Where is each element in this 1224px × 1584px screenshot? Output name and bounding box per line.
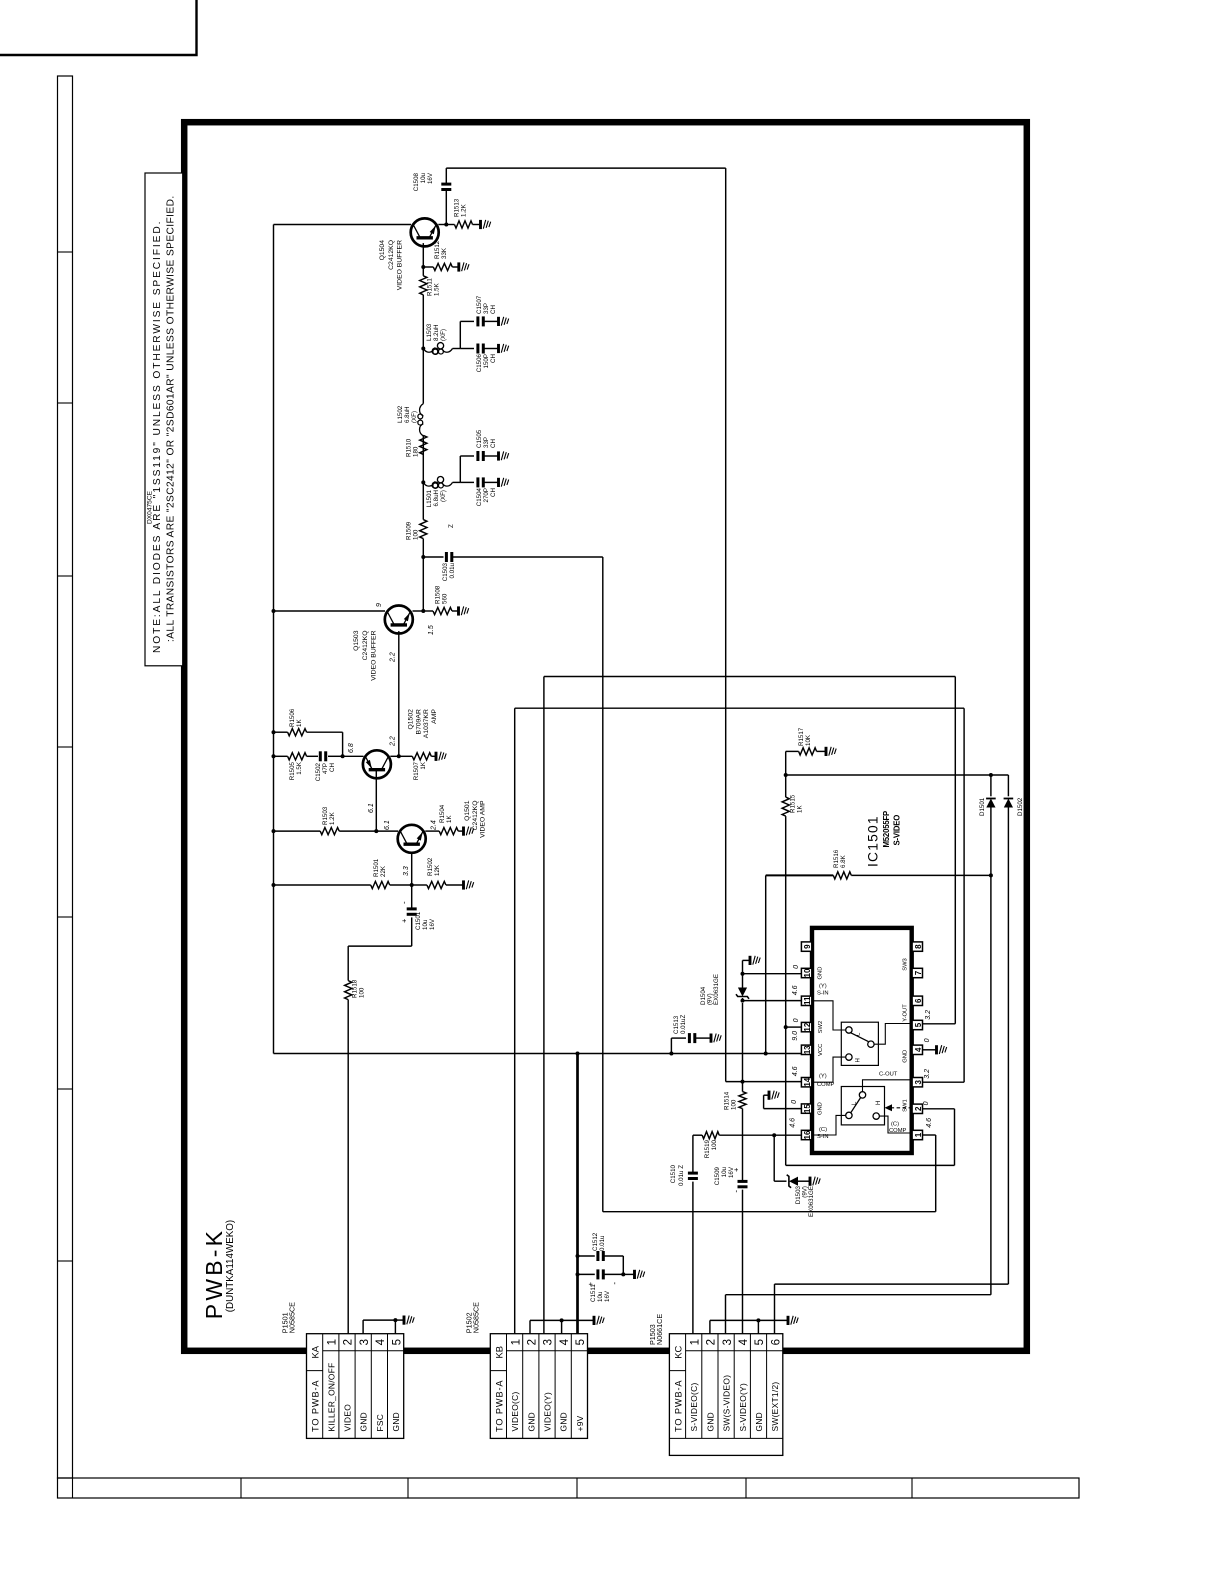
svg-text:10K: 10K — [805, 734, 812, 746]
svg-text:1K: 1K — [446, 815, 453, 823]
svg-text:6: 6 — [914, 998, 923, 1003]
svg-text:33K: 33K — [441, 247, 448, 259]
svg-text:Y-OUT: Y-OUT — [902, 1004, 908, 1022]
svg-text:TO PWB-A: TO PWB-A — [673, 1380, 683, 1432]
resistor R1508 — [423, 610, 433, 612]
capacitor C1505 — [460, 455, 474, 457]
svg-text:2: 2 — [914, 1106, 923, 1111]
svg-text:VIDEO BUFFER: VIDEO BUFFER — [397, 240, 404, 290]
IC pin 10 — [801, 968, 811, 977]
svg-text:C1507: C1507 — [476, 295, 483, 314]
resistor R1501 — [274, 884, 371, 886]
svg-text:8.2uH: 8.2uH — [433, 324, 440, 341]
svg-text:100: 100 — [731, 1099, 738, 1110]
svg-text:33P: 33P — [483, 303, 490, 314]
IC pin2 SW1 route — [922, 1108, 954, 1110]
resistor R1514 — [739, 1092, 746, 1109]
trap L1503 C1506 C1507 — [421, 347, 425, 351]
IC pin 3 — [912, 1078, 922, 1087]
wire pin12 stub — [786, 1026, 802, 1028]
capacitor C1512 — [576, 1254, 580, 1258]
svg-text:1.2K: 1.2K — [461, 203, 468, 217]
svg-text:C1508: C1508 — [413, 172, 420, 191]
svg-text:1.2K: 1.2K — [329, 811, 336, 825]
svg-text:R1517: R1517 — [798, 727, 805, 746]
diode D1502 — [1007, 775, 1009, 796]
svg-text:C1505: C1505 — [476, 429, 483, 448]
resistor R1503 — [274, 830, 321, 832]
svg-text:R1508: R1508 — [435, 585, 442, 604]
svg-text:3.2: 3.2 — [925, 1010, 932, 1020]
svg-text:0.01u Z: 0.01u Z — [678, 1165, 685, 1186]
svg-text:PWB-K: PWB-K — [201, 1228, 227, 1319]
svg-text:2.2: 2.2 — [390, 652, 397, 663]
svg-text:0: 0 — [924, 1038, 931, 1042]
svg-text:+9V: +9V — [575, 1415, 585, 1431]
svg-text:0: 0 — [793, 965, 800, 969]
svg-text:C1513: C1513 — [673, 1015, 680, 1034]
svg-text:R1513: R1513 — [454, 198, 461, 217]
svg-text:4.6: 4.6 — [792, 1066, 799, 1076]
svg-text:1: 1 — [689, 1339, 701, 1345]
wire Q1502 collector node — [390, 755, 399, 757]
svg-text:22K: 22K — [380, 865, 387, 877]
svg-text:C2412KQ: C2412KQ — [472, 801, 479, 831]
svg-text:1: 1 — [914, 1132, 923, 1137]
svg-text:AMP: AMP — [431, 709, 438, 724]
capacitor C1508 output — [445, 190, 447, 225]
svg-text:SW1: SW1 — [902, 1099, 908, 1112]
wire Q1503 collector to rail — [274, 610, 386, 612]
svg-text:N0585CE: N0585CE — [472, 1302, 481, 1333]
Y-OUT bus pin5 to P1502 pin3 — [543, 677, 545, 1334]
svg-text:TO PWB-A: TO PWB-A — [494, 1380, 504, 1432]
capacitor C1510 — [688, 1177, 698, 1180]
resistor R1515 — [782, 797, 789, 816]
capacitor C1511 electrolytic — [576, 1272, 580, 1276]
capacitor C1503 tap — [421, 555, 425, 559]
svg-text:CH: CH — [490, 439, 497, 448]
svg-text:16: 16 — [803, 1130, 812, 1139]
transistor Q1503 — [385, 606, 413, 634]
svg-text:C1501: C1501 — [415, 911, 422, 930]
capacitor C1509 electrolytic — [738, 1185, 748, 1188]
svg-text:3.2: 3.2 — [924, 1069, 931, 1079]
svg-text:C1506: C1506 — [476, 353, 483, 372]
svg-text:(C): (C) — [891, 1122, 899, 1128]
svg-text:Q1502: Q1502 — [408, 709, 415, 730]
resistor R1516 from VCC — [765, 875, 767, 1053]
IC pin 4 — [912, 1045, 922, 1054]
svg-text:S-IN: S-IN — [817, 991, 829, 997]
svg-text:33P: 33P — [483, 437, 490, 448]
svg-text:150P: 150P — [483, 354, 490, 368]
svg-text:15: 15 — [803, 1104, 812, 1113]
svg-text:10u: 10u — [422, 919, 429, 930]
P1502 ground pins 2,4 — [529, 1320, 531, 1333]
svg-text:C1510: C1510 — [670, 1164, 677, 1183]
svg-text:C2412KQ: C2412KQ — [388, 240, 395, 270]
wire Q1501 collector — [376, 830, 398, 832]
wire Q1504 emitter node — [438, 224, 446, 226]
svg-text:R1506: R1506 — [289, 708, 296, 727]
svg-text:4: 4 — [375, 1338, 387, 1345]
svg-text:GND: GND — [391, 1412, 401, 1432]
svg-text:5: 5 — [914, 1022, 923, 1027]
svg-text:C1509: C1509 — [714, 1166, 721, 1185]
svg-text:10u: 10u — [597, 1291, 604, 1302]
svg-text:16V: 16V — [427, 172, 434, 184]
video ladder chain — [422, 539, 424, 611]
svg-text:100: 100 — [413, 529, 420, 540]
svg-text:(Y): (Y) — [819, 984, 827, 990]
svg-text:CH: CH — [329, 763, 336, 772]
IC pin4 ground — [922, 1049, 936, 1051]
IC pin 13 — [801, 1045, 811, 1054]
resistor R1507 — [399, 755, 413, 757]
svg-text:KC: KC — [672, 1345, 683, 1358]
svg-text:R1510: R1510 — [406, 438, 413, 457]
SW1 dashed control arrow from pin 2 — [889, 1107, 912, 1109]
wire pin10 GND stub — [743, 973, 802, 975]
svg-text:H: H — [876, 1101, 882, 1105]
svg-text:S-VIDEO(Y): S-VIDEO(Y) — [738, 1383, 748, 1432]
svg-text:R1509: R1509 — [406, 521, 413, 540]
svg-text:6.8uH: 6.8uH — [404, 406, 411, 423]
svg-text:9: 9 — [803, 944, 812, 949]
P1503 ground pins 2,5 — [709, 1320, 711, 1333]
svg-text:4: 4 — [738, 1338, 750, 1345]
IC pin 12 — [801, 1022, 811, 1031]
svg-text:(Y): (Y) — [819, 1074, 827, 1080]
svg-text:1: 1 — [510, 1339, 522, 1345]
ground — [479, 220, 482, 229]
transistor Q1504 — [411, 218, 439, 246]
svg-text:L1501: L1501 — [426, 489, 433, 507]
P1501 ground pins 3,5 — [362, 1320, 364, 1334]
svg-text:6.8uH: 6.8uH — [433, 490, 440, 507]
svg-text:R1511: R1511 — [427, 278, 434, 296]
svg-text:100: 100 — [359, 987, 366, 998]
svg-text:GND: GND — [818, 1102, 824, 1115]
ground at D1504 — [742, 960, 744, 973]
main +9V rail — [273, 225, 275, 1054]
svg-text:R1515: R1515 — [790, 794, 797, 813]
wire Q1504 collector — [274, 224, 412, 226]
svg-text:SW2: SW2 — [818, 1021, 824, 1034]
svg-text:0: 0 — [793, 1018, 800, 1022]
svg-text:VIDEO BUFFER: VIDEO BUFFER — [371, 630, 378, 680]
left margin strip — [58, 76, 73, 1478]
svg-text:1: 1 — [327, 1339, 339, 1345]
long output line to IC pin14 area — [446, 167, 725, 169]
svg-text:8: 8 — [914, 944, 923, 949]
svg-text:1.5: 1.5 — [428, 625, 435, 635]
resistor R1509 — [420, 520, 427, 539]
svg-text:0.01u: 0.01u — [449, 562, 456, 578]
svg-text:CH: CH — [490, 305, 497, 314]
svg-text:(DUNTKA114WEKO): (DUNTKA114WEKO) — [225, 1220, 236, 1312]
transistor Q1502 PNP — [343, 755, 364, 757]
svg-text:-: - — [610, 1282, 619, 1285]
svg-text:GND: GND — [559, 1412, 569, 1432]
C-OUT bus pin3 to P1502 pin1 — [514, 708, 516, 1333]
svg-text:+: + — [732, 1167, 741, 1172]
svg-text:Q1501: Q1501 — [464, 800, 471, 821]
IC pin 8 — [912, 942, 922, 951]
svg-text:N0661CE: N0661CE — [655, 1314, 664, 1345]
svg-text:R1516: R1516 — [833, 849, 840, 868]
resistor R1517 to ground — [786, 750, 799, 752]
svg-text:R1504: R1504 — [439, 804, 446, 823]
svg-text:VCC: VCC — [818, 1044, 824, 1056]
wire chain to R1511 — [422, 295, 424, 349]
svg-text:KA: KA — [310, 1345, 321, 1358]
svg-text:13: 13 — [803, 1045, 812, 1054]
svg-text:2: 2 — [706, 1339, 718, 1345]
ground — [497, 478, 500, 487]
svg-text:6.1: 6.1 — [368, 803, 375, 813]
IC switch SW1 box — [841, 1087, 884, 1125]
resistor R1512 — [423, 266, 433, 268]
svg-text:10u: 10u — [721, 1166, 728, 1177]
IC pin 2 — [912, 1104, 922, 1113]
svg-text:12: 12 — [803, 1022, 812, 1031]
svg-text:C2412KQ: C2412KQ — [362, 631, 369, 661]
svg-text:-: - — [400, 901, 409, 904]
svg-text:SW(S-VIDEO): SW(S-VIDEO) — [722, 1375, 732, 1432]
resistor R1510 — [420, 435, 427, 454]
svg-text:(XF): (XF) — [440, 329, 447, 341]
svg-text:12K: 12K — [434, 864, 441, 876]
svg-text:270P: 270P — [483, 488, 490, 502]
inductor L1502 — [420, 404, 424, 436]
svg-text:+: + — [400, 918, 409, 923]
IC switch SW2 box — [841, 1022, 878, 1065]
trap L1501 C1504 C1505 — [421, 480, 425, 484]
capacitor C1506 — [460, 348, 474, 350]
connector P1503 table — [669, 1334, 782, 1456]
svg-text:VIDEO: VIDEO — [343, 1404, 353, 1432]
svg-text:R1519: R1519 — [704, 1139, 711, 1158]
Y input line to P1503 pin4 S-VIDEO(Y) — [742, 1190, 744, 1334]
ground — [457, 262, 460, 271]
svg-text:100: 100 — [711, 1139, 718, 1150]
svg-text:M52055FP: M52055FP — [882, 811, 891, 848]
svg-text:EX0631GE: EX0631GE — [713, 974, 720, 1005]
svg-text:L1502: L1502 — [397, 405, 404, 423]
bottom margin strip — [58, 1478, 1080, 1498]
svg-text:0.01uZ: 0.01uZ — [680, 1015, 687, 1034]
wire Q1502 collector to Q1503 base — [398, 631, 400, 756]
wire pin11 stub — [743, 1000, 802, 1002]
IC pin 16 — [801, 1130, 811, 1139]
svg-text::ALL TRANSISTORS ARE "2SC2412": :ALL TRANSISTORS ARE "2SC2412" OR "2SD60… — [166, 195, 177, 642]
svg-text:N0585CE: N0585CE — [288, 1302, 297, 1333]
svg-text:COMP: COMP — [817, 1082, 835, 1088]
C1503 route to IC pin1 — [602, 557, 604, 1212]
svg-text:6.8K: 6.8K — [840, 854, 847, 868]
svg-text:4.6: 4.6 — [926, 1118, 933, 1128]
svg-text:4.6: 4.6 — [790, 1118, 797, 1128]
svg-text:10u: 10u — [420, 172, 427, 183]
svg-text:11: 11 — [803, 996, 812, 1005]
svg-text:3: 3 — [359, 1339, 371, 1345]
svg-text:1.5K: 1.5K — [434, 282, 441, 296]
svg-text:SW3: SW3 — [902, 958, 908, 971]
main bold frame — [184, 122, 1027, 1351]
svg-text:47P: 47P — [322, 763, 329, 774]
resistor R1502 — [412, 884, 427, 886]
svg-text:GND: GND — [818, 967, 824, 980]
node base Q1501 wire — [411, 853, 413, 886]
svg-text:DX0475CE: DX0475CE — [147, 490, 154, 524]
ground — [462, 880, 465, 889]
svg-text:5: 5 — [391, 1339, 403, 1345]
svg-text:C1512: C1512 — [592, 1232, 599, 1251]
resistor R1519 — [693, 1134, 702, 1136]
svg-text:B709AR: B709AR — [415, 709, 422, 734]
IC1501 box — [812, 928, 912, 1153]
IC pin 6 — [912, 996, 922, 1005]
capacitor C1504 — [460, 481, 474, 483]
svg-text:R1501: R1501 — [373, 858, 380, 877]
IC pin 1 — [912, 1130, 922, 1139]
D1501 route to P1503 pin3 — [990, 875, 992, 1294]
svg-text:C1504: C1504 — [476, 487, 483, 506]
svg-text:R1503: R1503 — [322, 806, 329, 825]
connector P1502 table — [490, 1334, 587, 1439]
resistor R1504 — [425, 830, 439, 832]
svg-text:9: 9 — [376, 603, 383, 607]
VCC feed line (left vertical to IC pin 13) — [274, 1053, 802, 1055]
svg-text:GND: GND — [526, 1412, 536, 1432]
svg-text:C1511: C1511 — [590, 1284, 597, 1302]
ground — [462, 827, 465, 836]
svg-text:0.01u: 0.01u — [599, 1235, 606, 1251]
svg-text:6: 6 — [770, 1339, 782, 1345]
svg-text:S-VIDEO: S-VIDEO — [893, 815, 902, 846]
svg-text:R1507: R1507 — [413, 761, 420, 780]
resistor R1511 — [420, 276, 427, 295]
svg-text:H: H — [856, 1058, 862, 1062]
svg-text:4: 4 — [559, 1338, 571, 1345]
svg-text:(XF): (XF) — [440, 490, 447, 502]
svg-text:EX0631GE: EX0631GE — [808, 1186, 815, 1217]
svg-text:KB: KB — [493, 1346, 504, 1359]
svg-text:A1037KR: A1037KR — [423, 709, 430, 738]
svg-text:1.5K: 1.5K — [296, 761, 303, 775]
svg-text:VIDEO AMP: VIDEO AMP — [480, 800, 487, 838]
diode D1503 zener to ground — [773, 1135, 775, 1181]
resistor R1513 — [446, 224, 454, 226]
svg-text:-: - — [732, 1190, 741, 1193]
svg-text:Q1504: Q1504 — [379, 240, 386, 261]
svg-text:16V: 16V — [429, 918, 436, 930]
svg-text:R1505: R1505 — [289, 761, 296, 780]
svg-text:R1518: R1518 — [352, 979, 359, 998]
svg-text:GND: GND — [754, 1412, 764, 1432]
svg-text:3: 3 — [543, 1339, 555, 1345]
IC pin 14 — [801, 1078, 811, 1087]
svg-text:(C): (C) — [819, 1127, 827, 1133]
svg-text:SW(EXT1/2): SW(EXT1/2) — [770, 1382, 780, 1432]
svg-text:GND: GND — [359, 1412, 369, 1432]
thick +9V to P1502 pin5 — [576, 1054, 579, 1334]
svg-text:VIDEO(C): VIDEO(C) — [510, 1391, 520, 1431]
svg-text:Z: Z — [448, 524, 455, 528]
resistor R1518 — [345, 981, 352, 1000]
svg-text:1K: 1K — [296, 719, 303, 727]
svg-text:5: 5 — [575, 1339, 587, 1345]
wire Q1502 base to Q1501 collector — [375, 770, 377, 831]
svg-text:KILLER_ON/OFF: KILLER_ON/OFF — [326, 1362, 336, 1431]
svg-text:180: 180 — [413, 446, 420, 457]
svg-text:1K: 1K — [420, 761, 427, 769]
svg-text:CH: CH — [490, 488, 497, 497]
svg-text:5: 5 — [754, 1339, 766, 1345]
svg-text:IC1501: IC1501 — [866, 815, 881, 867]
svg-text:R1502: R1502 — [427, 857, 434, 876]
IC pin15 ground — [764, 1108, 802, 1110]
svg-text:4: 4 — [914, 1047, 923, 1052]
svg-text:NOTE:ALL DIODES ARE "1SS119" U: NOTE:ALL DIODES ARE "1SS119" UNLESS OTHE… — [152, 220, 163, 653]
IC pin 9 — [801, 942, 811, 951]
svg-text:2.2: 2.2 — [390, 736, 397, 747]
svg-text:2.4: 2.4 — [431, 820, 438, 831]
svg-text:R1514: R1514 — [724, 1091, 731, 1110]
wire Q1503 emitter node — [413, 610, 424, 612]
svg-text:D1502: D1502 — [1017, 797, 1024, 816]
note box — [145, 173, 183, 666]
svg-text:GND: GND — [705, 1412, 715, 1432]
resistor R1505 — [274, 755, 288, 757]
svg-text:9.0: 9.0 — [792, 1031, 799, 1041]
capacitor C1502 — [307, 755, 318, 757]
ground — [435, 752, 438, 761]
svg-text:14: 14 — [803, 1077, 812, 1086]
svg-text:7: 7 — [914, 970, 923, 975]
svg-text:16V: 16V — [604, 1290, 611, 1302]
svg-text:1K: 1K — [797, 805, 804, 813]
svg-text:10: 10 — [803, 968, 812, 977]
svg-text:3.3: 3.3 — [403, 866, 410, 876]
svg-text:6.1: 6.1 — [384, 820, 391, 830]
svg-text:3: 3 — [722, 1339, 734, 1345]
resistor R1506 — [274, 731, 288, 733]
svg-text:CH: CH — [490, 354, 497, 363]
connector P1501 table — [307, 1334, 404, 1439]
svg-text:GND: GND — [902, 1050, 908, 1063]
ground — [497, 451, 500, 460]
svg-text:4.6: 4.6 — [792, 985, 799, 995]
capacitor C1501 — [411, 917, 413, 946]
IC pin 15 — [801, 1104, 811, 1113]
svg-text:(XF): (XF) — [411, 411, 418, 423]
transistor Q1501 — [398, 825, 426, 853]
S-IN C line C1510 R1519 — [692, 1182, 694, 1334]
title block corner box — [0, 0, 197, 55]
svg-text:3: 3 — [914, 1079, 923, 1084]
svg-text:VIDEO(Y): VIDEO(Y) — [543, 1392, 553, 1432]
svg-text:6.8: 6.8 — [348, 743, 355, 753]
svg-text:L1503: L1503 — [426, 323, 433, 341]
SW1 SW2 control line R1515 R1517 — [786, 1164, 955, 1166]
svg-text:TO PWB-A: TO PWB-A — [311, 1380, 321, 1432]
SW node vertical — [786, 774, 1009, 776]
ground — [457, 606, 460, 615]
svg-text:C1502: C1502 — [315, 762, 322, 781]
